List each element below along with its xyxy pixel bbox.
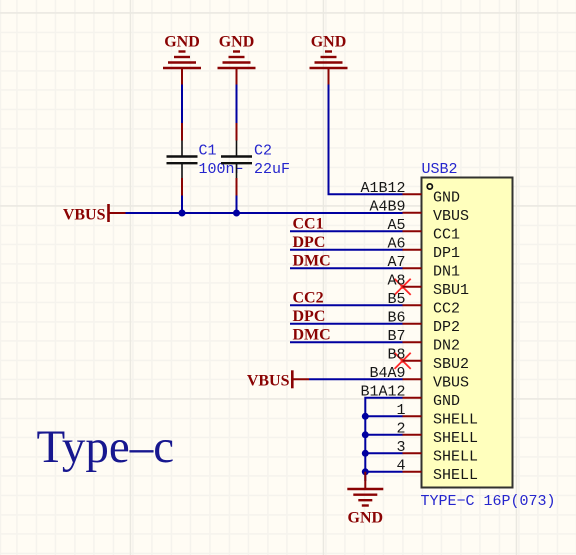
svg-text:A1B12: A1B12 — [360, 180, 405, 197]
svg-text:DN2: DN2 — [433, 338, 460, 355]
svg-text:DMC: DMC — [293, 253, 331, 270]
wire VBUS net — [126, 212, 403, 214]
junction C2/VBUS — [233, 210, 240, 217]
svg-text:SBU1: SBU1 — [433, 282, 469, 299]
svg-text:GND: GND — [433, 190, 460, 207]
junction C1/VBUS — [179, 210, 186, 217]
pin B6 — [387, 309, 460, 336]
pin A4B9 — [369, 198, 469, 225]
svg-text:GND: GND — [433, 393, 460, 410]
svg-text:B5: B5 — [387, 291, 405, 308]
svg-text:USB2: USB2 — [422, 161, 458, 178]
wire CC2 — [290, 304, 403, 306]
svg-text:Type–c: Type–c — [37, 421, 175, 473]
pin B8 — [387, 346, 469, 373]
svg-text:TYPE−C 16P(073): TYPE−C 16P(073) — [421, 493, 556, 510]
svg-text:3: 3 — [396, 439, 405, 456]
no-ERC cross at pin B8 — [395, 353, 411, 369]
pin B1A12 — [360, 383, 460, 410]
svg-text:VBUS: VBUS — [247, 373, 290, 390]
wire DMC — [290, 267, 403, 269]
svg-text:VBUS: VBUS — [433, 375, 469, 392]
svg-text:C2: C2 — [254, 143, 272, 160]
svg-text:SHELL: SHELL — [433, 412, 478, 429]
svg-text:SBU2: SBU2 — [433, 356, 469, 373]
svg-text:A7: A7 — [387, 254, 405, 271]
svg-text:SHELL: SHELL — [433, 430, 478, 447]
svg-text:DN1: DN1 — [433, 264, 460, 281]
svg-text:B7: B7 — [387, 328, 405, 345]
svg-text:CC2: CC2 — [293, 290, 324, 307]
pin A8 — [387, 272, 469, 299]
svg-text:A4B9: A4B9 — [369, 198, 405, 215]
pin 1 marker circle — [427, 184, 432, 189]
svg-text:GND: GND — [311, 34, 347, 51]
ground GND3 — [310, 34, 348, 85]
pin 3 SHELL — [396, 439, 478, 466]
svg-text:DP1: DP1 — [433, 245, 460, 262]
svg-text:2: 2 — [396, 420, 405, 437]
junction SHELL 1 — [362, 413, 369, 420]
pin A7 — [387, 254, 460, 281]
wire DMC row B7 — [290, 341, 403, 343]
pin A1B12 — [360, 180, 460, 207]
junction SHELL 4 — [362, 468, 369, 475]
wire GND3 to pin A1B12 — [329, 85, 403, 195]
pin 2 SHELL — [396, 420, 478, 447]
wire SHELL pin 1 — [365, 415, 402, 417]
capacitor C1 — [167, 123, 198, 196]
power port VBUS row B4A9 — [247, 370, 309, 389]
pin B5 — [387, 291, 460, 318]
wire C1 to VBUS net — [181, 196, 183, 214]
pin 1 SHELL — [396, 402, 478, 429]
wire GND1 to C1 — [181, 85, 183, 124]
svg-text:B6: B6 — [387, 309, 405, 326]
junction SHELL 2 — [362, 431, 369, 438]
svg-text:DPC: DPC — [293, 308, 326, 325]
capacitor C2 — [221, 123, 252, 196]
svg-text:SHELL: SHELL — [433, 467, 478, 484]
wire DPC — [290, 249, 403, 251]
pin A5 — [387, 217, 460, 244]
pin B7 — [387, 328, 460, 355]
svg-text:A5: A5 — [387, 217, 405, 234]
wire VBUS to pin B4A9 — [309, 378, 403, 380]
svg-text:A6: A6 — [387, 235, 405, 252]
ground GND1 — [163, 34, 201, 85]
pin A6 — [387, 235, 460, 262]
svg-text:1: 1 — [396, 402, 405, 419]
junction SHELL 3 — [362, 450, 369, 457]
svg-text:SHELL: SHELL — [433, 449, 478, 466]
pin 4 SHELL — [396, 457, 478, 484]
wire pin B1A12 to ground bus — [365, 398, 402, 481]
svg-text:GND: GND — [348, 510, 384, 527]
wire DPC row B6 — [290, 323, 403, 325]
svg-text:VBUS: VBUS — [433, 208, 469, 225]
ground GND2 — [218, 34, 256, 85]
svg-text:CC1: CC1 — [433, 227, 460, 244]
svg-text:C1: C1 — [199, 143, 217, 160]
connector USB2 body — [422, 178, 513, 488]
no-ERC cross at pin A8 — [395, 279, 411, 295]
svg-text:B8: B8 — [387, 346, 405, 363]
wire SHELL pin 3 — [365, 452, 402, 454]
svg-text:B4A9: B4A9 — [369, 365, 405, 382]
wire GND2 to C2 — [236, 85, 238, 124]
wire SHELL pin 4 — [365, 471, 402, 473]
svg-text:CC1: CC1 — [293, 216, 324, 233]
svg-text:DMC: DMC — [293, 327, 331, 344]
wire CC1 — [290, 230, 403, 232]
svg-text:DPC: DPC — [293, 234, 326, 251]
pin B4A9 — [369, 365, 469, 392]
svg-text:GND: GND — [164, 34, 200, 51]
power port VBUS left — [63, 204, 126, 224]
svg-text:4: 4 — [396, 457, 405, 474]
svg-text:VBUS: VBUS — [63, 207, 106, 224]
svg-text:22uF: 22uF — [254, 161, 290, 178]
wire SHELL pin 2 — [365, 434, 402, 436]
svg-text:GND: GND — [219, 34, 255, 51]
svg-text:CC2: CC2 — [433, 301, 460, 318]
svg-text:A8: A8 — [387, 272, 405, 289]
svg-text:DP2: DP2 — [433, 319, 460, 336]
ground GND4 bottom — [347, 472, 383, 527]
svg-text:B1A12: B1A12 — [360, 383, 405, 400]
wire C2 to VBUS net — [236, 196, 238, 214]
